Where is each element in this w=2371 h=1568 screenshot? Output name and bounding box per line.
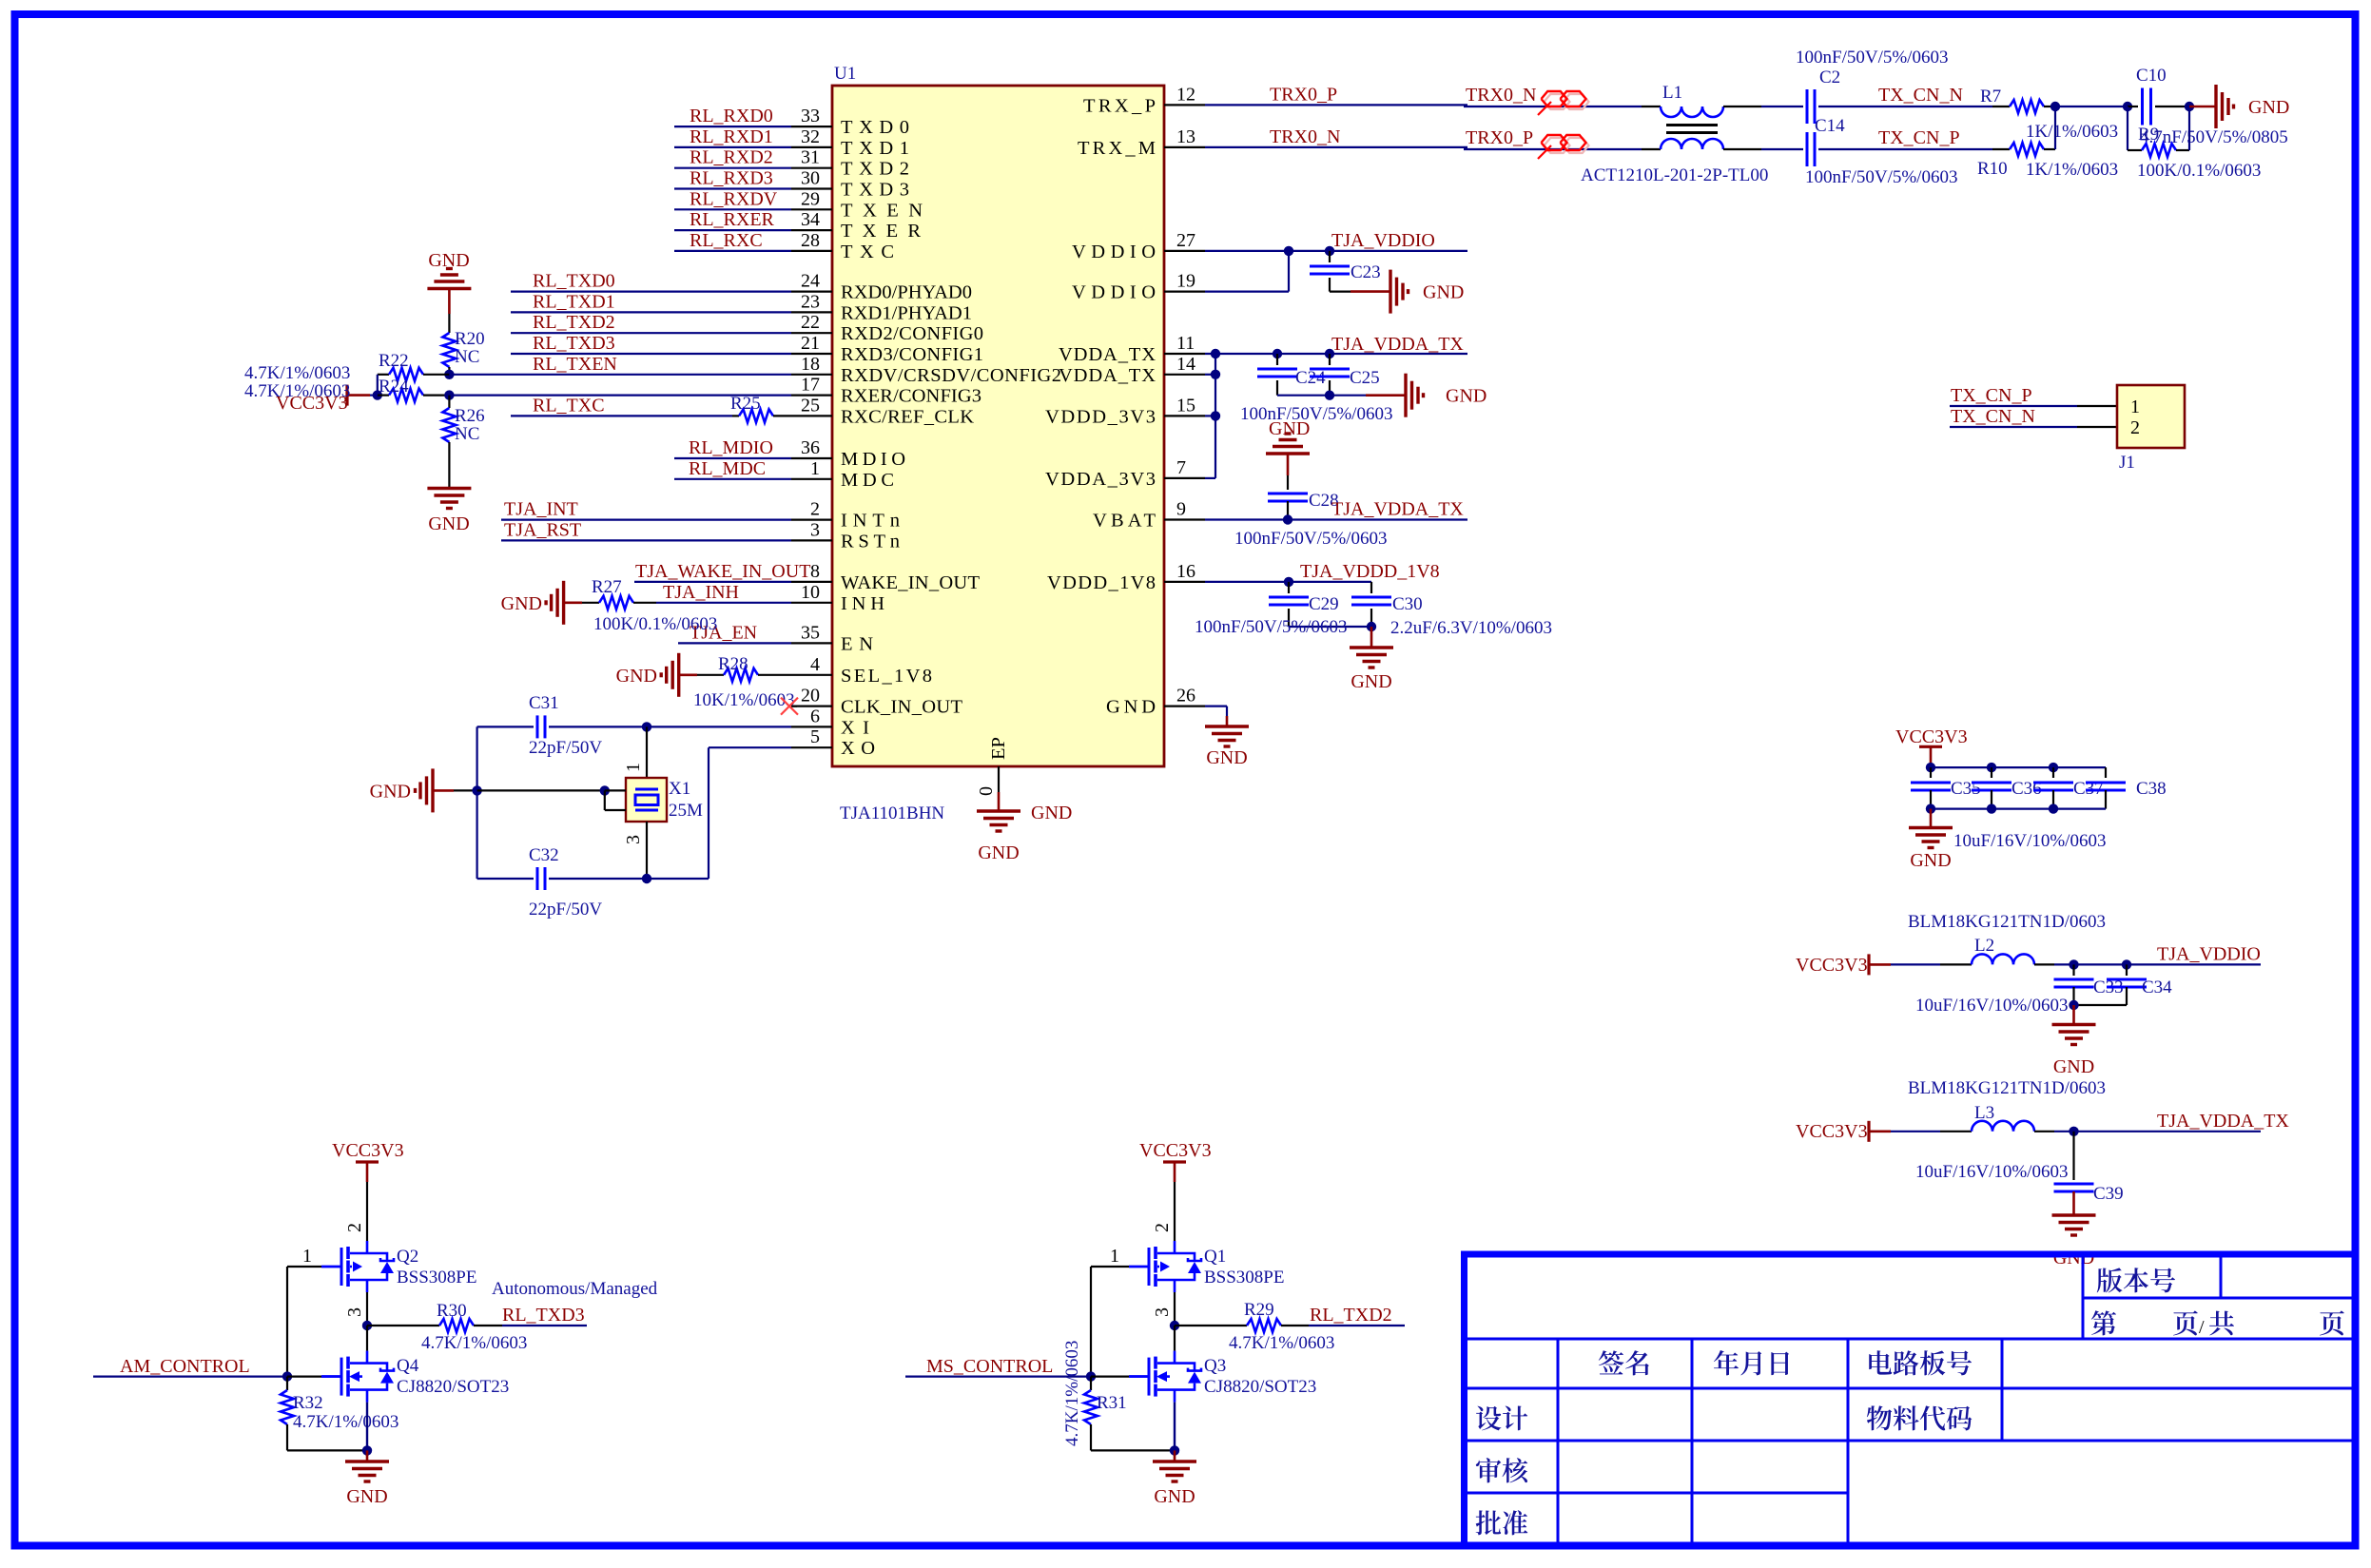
- svg-text:7: 7: [1176, 457, 1186, 478]
- wire pin19 to rail: [1205, 291, 1289, 293]
- wire VCC to L2: [1891, 963, 1940, 965]
- title block line v4: [1691, 1339, 1694, 1542]
- svg-text:GND: GND: [2248, 97, 2289, 118]
- svg-text:8: 8: [810, 561, 820, 582]
- junction C10 right: [2185, 102, 2194, 111]
- svg-text:GND: GND: [346, 1486, 387, 1507]
- svg-text:1: 1: [2130, 397, 2140, 417]
- svg-text:SEL_1V8: SEL_1V8: [841, 666, 932, 687]
- svg-text:C39: C39: [2093, 1184, 2124, 1204]
- svg-text:MDIO: MDIO: [841, 449, 905, 470]
- capacitor C30: [1370, 582, 1372, 593]
- svg-text:22pF/50V: 22pF/50V: [529, 900, 602, 920]
- net TX_CN_N wire: [1818, 106, 1992, 107]
- junction crystal rail GND: [472, 785, 481, 795]
- svg-text:10uF/16V/10%/0603: 10uF/16V/10%/0603: [1953, 831, 2106, 851]
- capacitor C37: [2052, 767, 2054, 778]
- svg-text:21: 21: [801, 333, 820, 354]
- svg-text:R22: R22: [379, 351, 409, 371]
- U1 pin 2 INTn: [791, 518, 832, 520]
- net RL_RXD0 wire: [674, 126, 791, 127]
- title block line h5: [1467, 1492, 1848, 1495]
- svg-text:16: 16: [1176, 561, 1195, 582]
- net TJA_VDDIO wire (pin 27): [1205, 250, 1467, 252]
- net TX_CN_P wire (J1): [1950, 405, 2077, 407]
- svg-text:/: /: [2199, 1317, 2205, 1338]
- svg-text:WAKE_IN_OUT: WAKE_IN_OUT: [841, 572, 980, 593]
- wire C29-C30 bottom: [1289, 626, 1371, 628]
- differential pair mark N: [1545, 94, 1570, 109]
- U1 pin 4 SEL_1V8: [791, 674, 832, 676]
- svg-text:U1: U1: [834, 64, 856, 84]
- svg-text:RL_TXEN: RL_TXEN: [533, 354, 617, 375]
- svg-text:R20: R20: [455, 329, 485, 349]
- svg-text:100nF/50V/5%/0603: 100nF/50V/5%/0603: [1796, 48, 1948, 68]
- wire crystal case: [477, 789, 605, 791]
- IC U1 TJA1101BHN body: [832, 86, 1164, 766]
- U1 pin 8 WAKE_IN_OUT: [791, 581, 832, 583]
- svg-text:14: 14: [1176, 354, 1195, 375]
- svg-text:VDDIO: VDDIO: [1072, 242, 1156, 262]
- ground GND (L3): [2072, 1191, 2075, 1215]
- junction pin27 b: [1325, 246, 1334, 256]
- svg-text:36: 36: [801, 437, 820, 458]
- U1 pin 9 VBAT: [1164, 518, 1205, 520]
- net RL_TXD2 wire: [1309, 1325, 1405, 1326]
- svg-text:13: 13: [1176, 126, 1195, 147]
- wire C32 row: [477, 878, 534, 880]
- junction R7/R10: [2050, 102, 2060, 111]
- ground GND (C29/C30): [1370, 627, 1373, 648]
- svg-text:2.2uF/6.3V/10%/0603: 2.2uF/6.3V/10%/0603: [1390, 618, 1552, 638]
- wire Q2 gate rail: [286, 1267, 288, 1377]
- svg-text:L1: L1: [1662, 83, 1682, 103]
- junction Q1/Q3/R29: [1170, 1321, 1179, 1330]
- junction GND node (Q4): [362, 1445, 372, 1455]
- wire Q4 source: [366, 1403, 368, 1451]
- net RL_TXD2 wire: [511, 332, 791, 334]
- net RL_RXD3 wire: [674, 187, 791, 189]
- wire X1 pin1: [646, 726, 648, 778]
- svg-text:4.7K/1%/0603: 4.7K/1%/0603: [293, 1412, 398, 1432]
- svg-text:R7: R7: [1980, 87, 2001, 106]
- net RXER/CONFIG3 wire: [449, 395, 791, 397]
- svg-text:20: 20: [801, 686, 820, 707]
- svg-text:VDDA_TX: VDDA_TX: [1059, 365, 1156, 386]
- capacitor C2: [1806, 89, 1809, 124]
- svg-text:18: 18: [801, 354, 820, 375]
- svg-text:EP: EP: [988, 737, 1009, 760]
- svg-text:RL_RXD1: RL_RXD1: [690, 126, 773, 147]
- svg-text:3: 3: [1152, 1307, 1173, 1317]
- svg-text:C31: C31: [529, 693, 559, 713]
- net TJA_VDDD_1V8 wire (pin 16): [1205, 581, 1371, 583]
- junction C24 top: [1273, 349, 1282, 358]
- svg-text:2: 2: [344, 1223, 365, 1232]
- junction R24/R26 pin17: [444, 390, 454, 399]
- svg-text:VDDA_TX: VDDA_TX: [1059, 344, 1156, 365]
- svg-text:L3: L3: [1974, 1103, 1994, 1123]
- svg-text:RXD3/CONFIG1: RXD3/CONFIG1: [841, 344, 983, 365]
- junction C30 bottom: [1367, 622, 1376, 631]
- wire R22 to VCC corner: [377, 375, 379, 396]
- net RL_RXD2 wire: [674, 167, 791, 169]
- svg-text:100K/0.1%/0603: 100K/0.1%/0603: [593, 614, 717, 634]
- title block line h3: [1467, 1387, 2352, 1390]
- net TX_CN_P wire: [1818, 148, 1992, 150]
- U1 pin 16 VDDD_1V8: [1164, 581, 1205, 583]
- svg-text:9: 9: [1176, 499, 1186, 520]
- svg-text:RL_RXD2: RL_RXD2: [690, 147, 773, 168]
- resistor R28: [724, 668, 758, 682]
- svg-text:6: 6: [810, 706, 820, 726]
- capacitor C36: [1991, 767, 1992, 778]
- svg-text:25: 25: [801, 395, 820, 416]
- ground GND (L2): [2072, 1005, 2075, 1025]
- ground GND (C35 bank): [1930, 809, 1933, 828]
- svg-text:BSS308PE: BSS308PE: [397, 1268, 476, 1287]
- svg-text:MDC: MDC: [841, 470, 894, 491]
- inductor L2: [1972, 954, 2034, 964]
- svg-text:TJA_INH: TJA_INH: [663, 582, 739, 603]
- capacitor C33: [2072, 964, 2074, 976]
- svg-text:15: 15: [1176, 395, 1195, 416]
- svg-text:22pF/50V: 22pF/50V: [529, 738, 602, 758]
- net TJA_VDDA_TX wire (L3): [2034, 1131, 2054, 1132]
- U1 pin 13 TRX_M: [1164, 146, 1205, 148]
- svg-text:GND: GND: [1206, 747, 1247, 768]
- net RL_RXDV wire: [674, 208, 791, 210]
- wire pin15 to bus: [1205, 415, 1215, 416]
- svg-text:4: 4: [810, 654, 820, 675]
- svg-text:MS_CONTROL: MS_CONTROL: [926, 1356, 1053, 1377]
- junction bus pin15: [1211, 411, 1220, 420]
- svg-text:CJ8820/SOT23: CJ8820/SOT23: [1204, 1377, 1316, 1397]
- net TJA_EN wire: [678, 642, 791, 644]
- svg-text:GND: GND: [1031, 803, 1072, 823]
- wire XI row: [477, 726, 534, 727]
- capacitor C31: [536, 715, 539, 738]
- U1 pin 12 TRX_P: [1164, 104, 1205, 106]
- svg-text:CJ8820/SOT23: CJ8820/SOT23: [397, 1377, 509, 1397]
- resistor R29: [1175, 1325, 1247, 1326]
- ground GND (EP): [977, 809, 1020, 812]
- svg-text:2: 2: [810, 499, 820, 520]
- junction C35 bottom: [1926, 803, 1935, 813]
- junction C37 bottom: [2049, 803, 2058, 813]
- junction GND node (Q3): [1170, 1445, 1179, 1455]
- wire L1 to C14: [1761, 148, 1803, 150]
- svg-text:R28: R28: [718, 654, 748, 674]
- svg-text:27: 27: [1176, 230, 1195, 251]
- title text 版本号: [2097, 1268, 2175, 1292]
- svg-text:ACT1210L-201-2P-TL00: ACT1210L-201-2P-TL00: [1581, 165, 1768, 185]
- net RL_TXD1 wire: [511, 311, 791, 313]
- capacitor C34: [2126, 964, 2128, 976]
- wire C23 to GND: [1330, 291, 1351, 293]
- svg-text:AM_CONTROL: AM_CONTROL: [120, 1356, 250, 1377]
- svg-text:C14: C14: [1815, 116, 1845, 136]
- svg-text:TRX0_N: TRX0_N: [1270, 126, 1340, 147]
- svg-text:12: 12: [1176, 84, 1195, 105]
- svg-text:TJA_INT: TJA_INT: [504, 499, 578, 520]
- wire crystal left rail: [476, 726, 478, 879]
- net TRX0_N wire (pin 13): [1205, 146, 1467, 148]
- svg-text:J1: J1: [2119, 453, 2135, 473]
- svg-text:4.7K/1%/0603: 4.7K/1%/0603: [421, 1333, 527, 1353]
- no-connect X on CLK_IN_OUT: [791, 705, 797, 707]
- wire EP: [998, 766, 1000, 792]
- ground GND (R27): [562, 581, 565, 625]
- junction MS_CONTROL/R31: [1086, 1371, 1096, 1381]
- resistor R26: [448, 396, 450, 408]
- wire gate Q3: [1091, 1375, 1129, 1377]
- svg-text:GND: GND: [501, 593, 542, 614]
- svg-text:GND: GND: [1910, 850, 1951, 871]
- svg-text:TX_CN_N: TX_CN_N: [1878, 85, 1963, 106]
- title text 第页/共页: [2091, 1310, 2116, 1335]
- net TRX0_N label (filter): [1464, 106, 1642, 107]
- title block line v2 (版本号 right): [2220, 1256, 2223, 1298]
- net TJA_WAKE_IN_OUT wire: [634, 581, 791, 583]
- wire to GND (C10): [2189, 106, 2216, 108]
- net RL_RXD1 wire: [674, 146, 791, 148]
- junction C33 bottom: [2069, 1000, 2078, 1010]
- junction VCC3V3: [373, 390, 382, 399]
- svg-text:R10: R10: [1977, 159, 2008, 179]
- U1 pin 25 RXC/REF_CLK: [791, 415, 832, 416]
- svg-text:GND: GND: [428, 513, 469, 534]
- ground GND (Q4): [366, 1450, 369, 1462]
- junction C25 bottom: [1325, 391, 1334, 400]
- svg-text:R26: R26: [455, 406, 485, 426]
- wire GND to C28: [1287, 454, 1290, 475]
- crystal X1: [626, 778, 667, 822]
- U1 pin 14 VDDA_TX: [1164, 374, 1205, 376]
- svg-text:RXC/REF_CLK: RXC/REF_CLK: [841, 406, 974, 427]
- svg-text:NC: NC: [455, 347, 479, 367]
- wire R31 bottom: [1091, 1449, 1175, 1451]
- junction bus pin14: [1211, 370, 1220, 379]
- svg-text:100nF/50V/5%/0603: 100nF/50V/5%/0603: [1240, 404, 1392, 424]
- ground GND (C10): [2214, 85, 2217, 128]
- svg-text:100nF/50V/5%/0603: 100nF/50V/5%/0603: [1234, 529, 1387, 549]
- svg-text:C30: C30: [1392, 594, 1423, 614]
- svg-text:35: 35: [801, 622, 820, 643]
- wire GND to R20: [448, 289, 451, 315]
- capacitor C24: [1276, 354, 1278, 365]
- wire Q3 source: [1174, 1403, 1176, 1451]
- net RL_RXER wire: [674, 229, 791, 231]
- capacitor C38: [2105, 767, 2107, 778]
- junction pin27 a: [1284, 246, 1293, 256]
- title block outer border: [1465, 1254, 2356, 1546]
- resistor R10: [1992, 148, 2010, 150]
- svg-text:RL_TXD3: RL_TXD3: [533, 333, 615, 354]
- junction bus pin11: [1211, 349, 1220, 358]
- title text 设计: [1476, 1405, 1527, 1430]
- net TX_CN_N wire (J1): [1950, 426, 2077, 428]
- svg-text:TX_CN_N: TX_CN_N: [1951, 406, 2035, 427]
- svg-text:29: 29: [801, 188, 820, 209]
- svg-text:RXD0/PHYAD0: RXD0/PHYAD0: [841, 282, 972, 303]
- svg-text:C29: C29: [1309, 594, 1339, 614]
- svg-text:L2: L2: [1974, 936, 1994, 956]
- svg-text:RL_MDC: RL_MDC: [689, 458, 766, 479]
- svg-text:TJA_RST: TJA_RST: [504, 519, 581, 540]
- junction XI / X1 pin1: [642, 722, 651, 731]
- capacitor C32: [536, 867, 539, 890]
- svg-text:Autonomous/Managed: Autonomous/Managed: [492, 1279, 658, 1299]
- svg-text:GND: GND: [1154, 1486, 1195, 1507]
- svg-text:4.7K/1%/0603: 4.7K/1%/0603: [244, 381, 350, 401]
- U1 pin 10 INH: [791, 602, 832, 604]
- junction C35 top: [1926, 763, 1935, 772]
- svg-text:RL_TXD2: RL_TXD2: [533, 312, 615, 333]
- junction X1 pin3 / C32 row: [642, 874, 651, 883]
- title block line v6: [2001, 1339, 2004, 1441]
- svg-text:4.7K/1%/0603: 4.7K/1%/0603: [244, 363, 350, 383]
- wire XO vertical: [708, 747, 709, 879]
- junction C37 top: [2049, 763, 2058, 772]
- resistor R7: [1992, 106, 2010, 107]
- svg-text:C38: C38: [2136, 779, 2167, 799]
- wire C33-C34 bottom: [2074, 1004, 2128, 1006]
- power GND (R26 bottom): [427, 487, 471, 490]
- svg-text:1K/1%/0603: 1K/1%/0603: [2026, 160, 2118, 180]
- svg-text:X1: X1: [669, 779, 690, 799]
- svg-text:VDDIO: VDDIO: [1072, 282, 1156, 303]
- svg-text:GND: GND: [2053, 1248, 2094, 1268]
- svg-text:RXD1/PHYAD1: RXD1/PHYAD1: [841, 302, 972, 323]
- U1 pin 23 RXD1/PHYAD1: [791, 311, 832, 313]
- U1 pin 6 XI: [791, 726, 832, 727]
- svg-text:RL_RXD3: RL_RXD3: [690, 168, 773, 189]
- resistor R22: [378, 374, 389, 376]
- svg-text:VCC3V3: VCC3V3: [1796, 955, 1868, 976]
- svg-text:26: 26: [1176, 686, 1195, 707]
- svg-text:R24: R24: [379, 377, 409, 397]
- svg-text:VDDA_3V3: VDDA_3V3: [1045, 469, 1156, 490]
- wire X1 pin3: [646, 822, 648, 879]
- resistor R30: [367, 1325, 439, 1326]
- svg-text:25M: 25M: [669, 801, 703, 821]
- transistor Q1 BSS308PE: [1129, 1241, 1201, 1292]
- svg-text:11: 11: [1176, 333, 1195, 354]
- svg-text:100K/0.1%/0603: 100K/0.1%/0603: [2137, 161, 2261, 181]
- ground GND (crystal): [431, 768, 434, 812]
- capacitor C28: [1268, 493, 1308, 495]
- net TRX0_P label (filter): [1464, 148, 1642, 150]
- wire VCC to L3: [1891, 1131, 1940, 1132]
- wire GND to rail: [433, 789, 454, 792]
- net RL_TXEN wire: [449, 374, 791, 376]
- svg-text:C10: C10: [2136, 66, 2167, 86]
- U1 pin 28 TXC: [791, 250, 832, 252]
- differential pair mark P: [1545, 138, 1570, 153]
- wire GND to R28: [679, 673, 697, 676]
- svg-text:19: 19: [1176, 271, 1195, 292]
- svg-text:R25: R25: [730, 394, 761, 414]
- wire to C10: [2055, 106, 2128, 107]
- svg-text:TRX_P: TRX_P: [1083, 95, 1156, 116]
- U1 pin 31 TXD2: [791, 167, 832, 169]
- net TJA_VDDIO wire (L2): [2034, 963, 2054, 965]
- svg-text:3: 3: [810, 519, 820, 540]
- U1 pin 19 VDDIO: [1164, 291, 1205, 293]
- title block line h4: [1467, 1440, 2352, 1442]
- junction C25 top: [1325, 349, 1334, 358]
- svg-text:TJA1101BHN: TJA1101BHN: [840, 803, 944, 823]
- junction C10 left: [2123, 102, 2132, 111]
- svg-text:RL_TXD2: RL_TXD2: [1310, 1305, 1392, 1326]
- svg-text:NC: NC: [455, 424, 479, 444]
- title block line h1 (版本号 bottom): [2083, 1297, 2352, 1300]
- wire C35 bank bottom rail: [1931, 807, 2106, 809]
- svg-text:34: 34: [801, 209, 820, 230]
- U1 pin 27 VDDIO: [1164, 250, 1205, 252]
- U1 pin 15 VDDD_3V3: [1164, 415, 1205, 416]
- svg-text:3: 3: [623, 835, 644, 844]
- title block line v1 (版本号 left): [2082, 1256, 2085, 1339]
- capacitor C23: [1329, 251, 1331, 262]
- svg-text:TJA_VDDA_TX: TJA_VDDA_TX: [1331, 334, 1464, 355]
- svg-text:TJA_VDDD_1V8: TJA_VDDD_1V8: [1300, 561, 1440, 582]
- resistor R9 parallel: [2127, 106, 2128, 150]
- svg-text:10: 10: [801, 582, 820, 603]
- U1 pin 33 TXD0: [791, 126, 832, 127]
- U1 pin 24 RXD0/PHYAD0: [791, 291, 832, 293]
- junction C36 bottom: [1987, 803, 1996, 813]
- title text 签名: [1599, 1350, 1649, 1375]
- net TJA_RST wire: [501, 539, 791, 541]
- title text 批准: [1476, 1510, 1528, 1535]
- svg-text:17: 17: [801, 375, 820, 396]
- title text 物料代码: [1867, 1405, 1972, 1430]
- junction C28/VBAT: [1283, 514, 1292, 524]
- U1 pin 17 RXER/CONFIG3: [791, 395, 832, 397]
- svg-text:GND: GND: [1269, 418, 1310, 439]
- wire pin14 to bus: [1205, 374, 1215, 376]
- U1 pin 26 GND: [1164, 705, 1205, 707]
- svg-text:TRX_M: TRX_M: [1078, 138, 1156, 159]
- svg-text:3: 3: [344, 1307, 365, 1317]
- U1 pin 36 MDIO: [791, 457, 832, 459]
- U1 pin 35 EN: [791, 642, 832, 644]
- net RL_MDC wire: [674, 478, 791, 480]
- wire VDDA bus vertical: [1215, 354, 1216, 478]
- svg-text:TRX0_N: TRX0_N: [1466, 85, 1536, 106]
- svg-text:RL_TXD1: RL_TXD1: [533, 291, 615, 312]
- svg-text:RL_MDIO: RL_MDIO: [689, 437, 773, 458]
- U1 pin 34 TXER: [791, 229, 832, 231]
- wire Q1 gate rail: [1090, 1267, 1092, 1377]
- svg-text:TJA_VDDA_TX: TJA_VDDA_TX: [2157, 1111, 2289, 1132]
- net RL_TXD0 wire: [511, 291, 791, 293]
- ground GND (C24/C25): [1404, 374, 1407, 417]
- svg-text:BSS308PE: BSS308PE: [1204, 1268, 1284, 1287]
- svg-text:RL_RXDV: RL_RXDV: [690, 188, 778, 209]
- svg-text:RL_RXER: RL_RXER: [690, 209, 775, 230]
- svg-text:TRX0_P: TRX0_P: [1466, 127, 1533, 148]
- svg-text:1: 1: [302, 1246, 312, 1267]
- capacitor C25: [1329, 354, 1331, 365]
- svg-text:Q4: Q4: [397, 1356, 419, 1376]
- svg-text:GND: GND: [2053, 1056, 2094, 1077]
- title text 年月日: [1714, 1350, 1789, 1375]
- junction Q2/Q4/R30: [362, 1321, 372, 1330]
- junction C34 top: [2122, 959, 2131, 969]
